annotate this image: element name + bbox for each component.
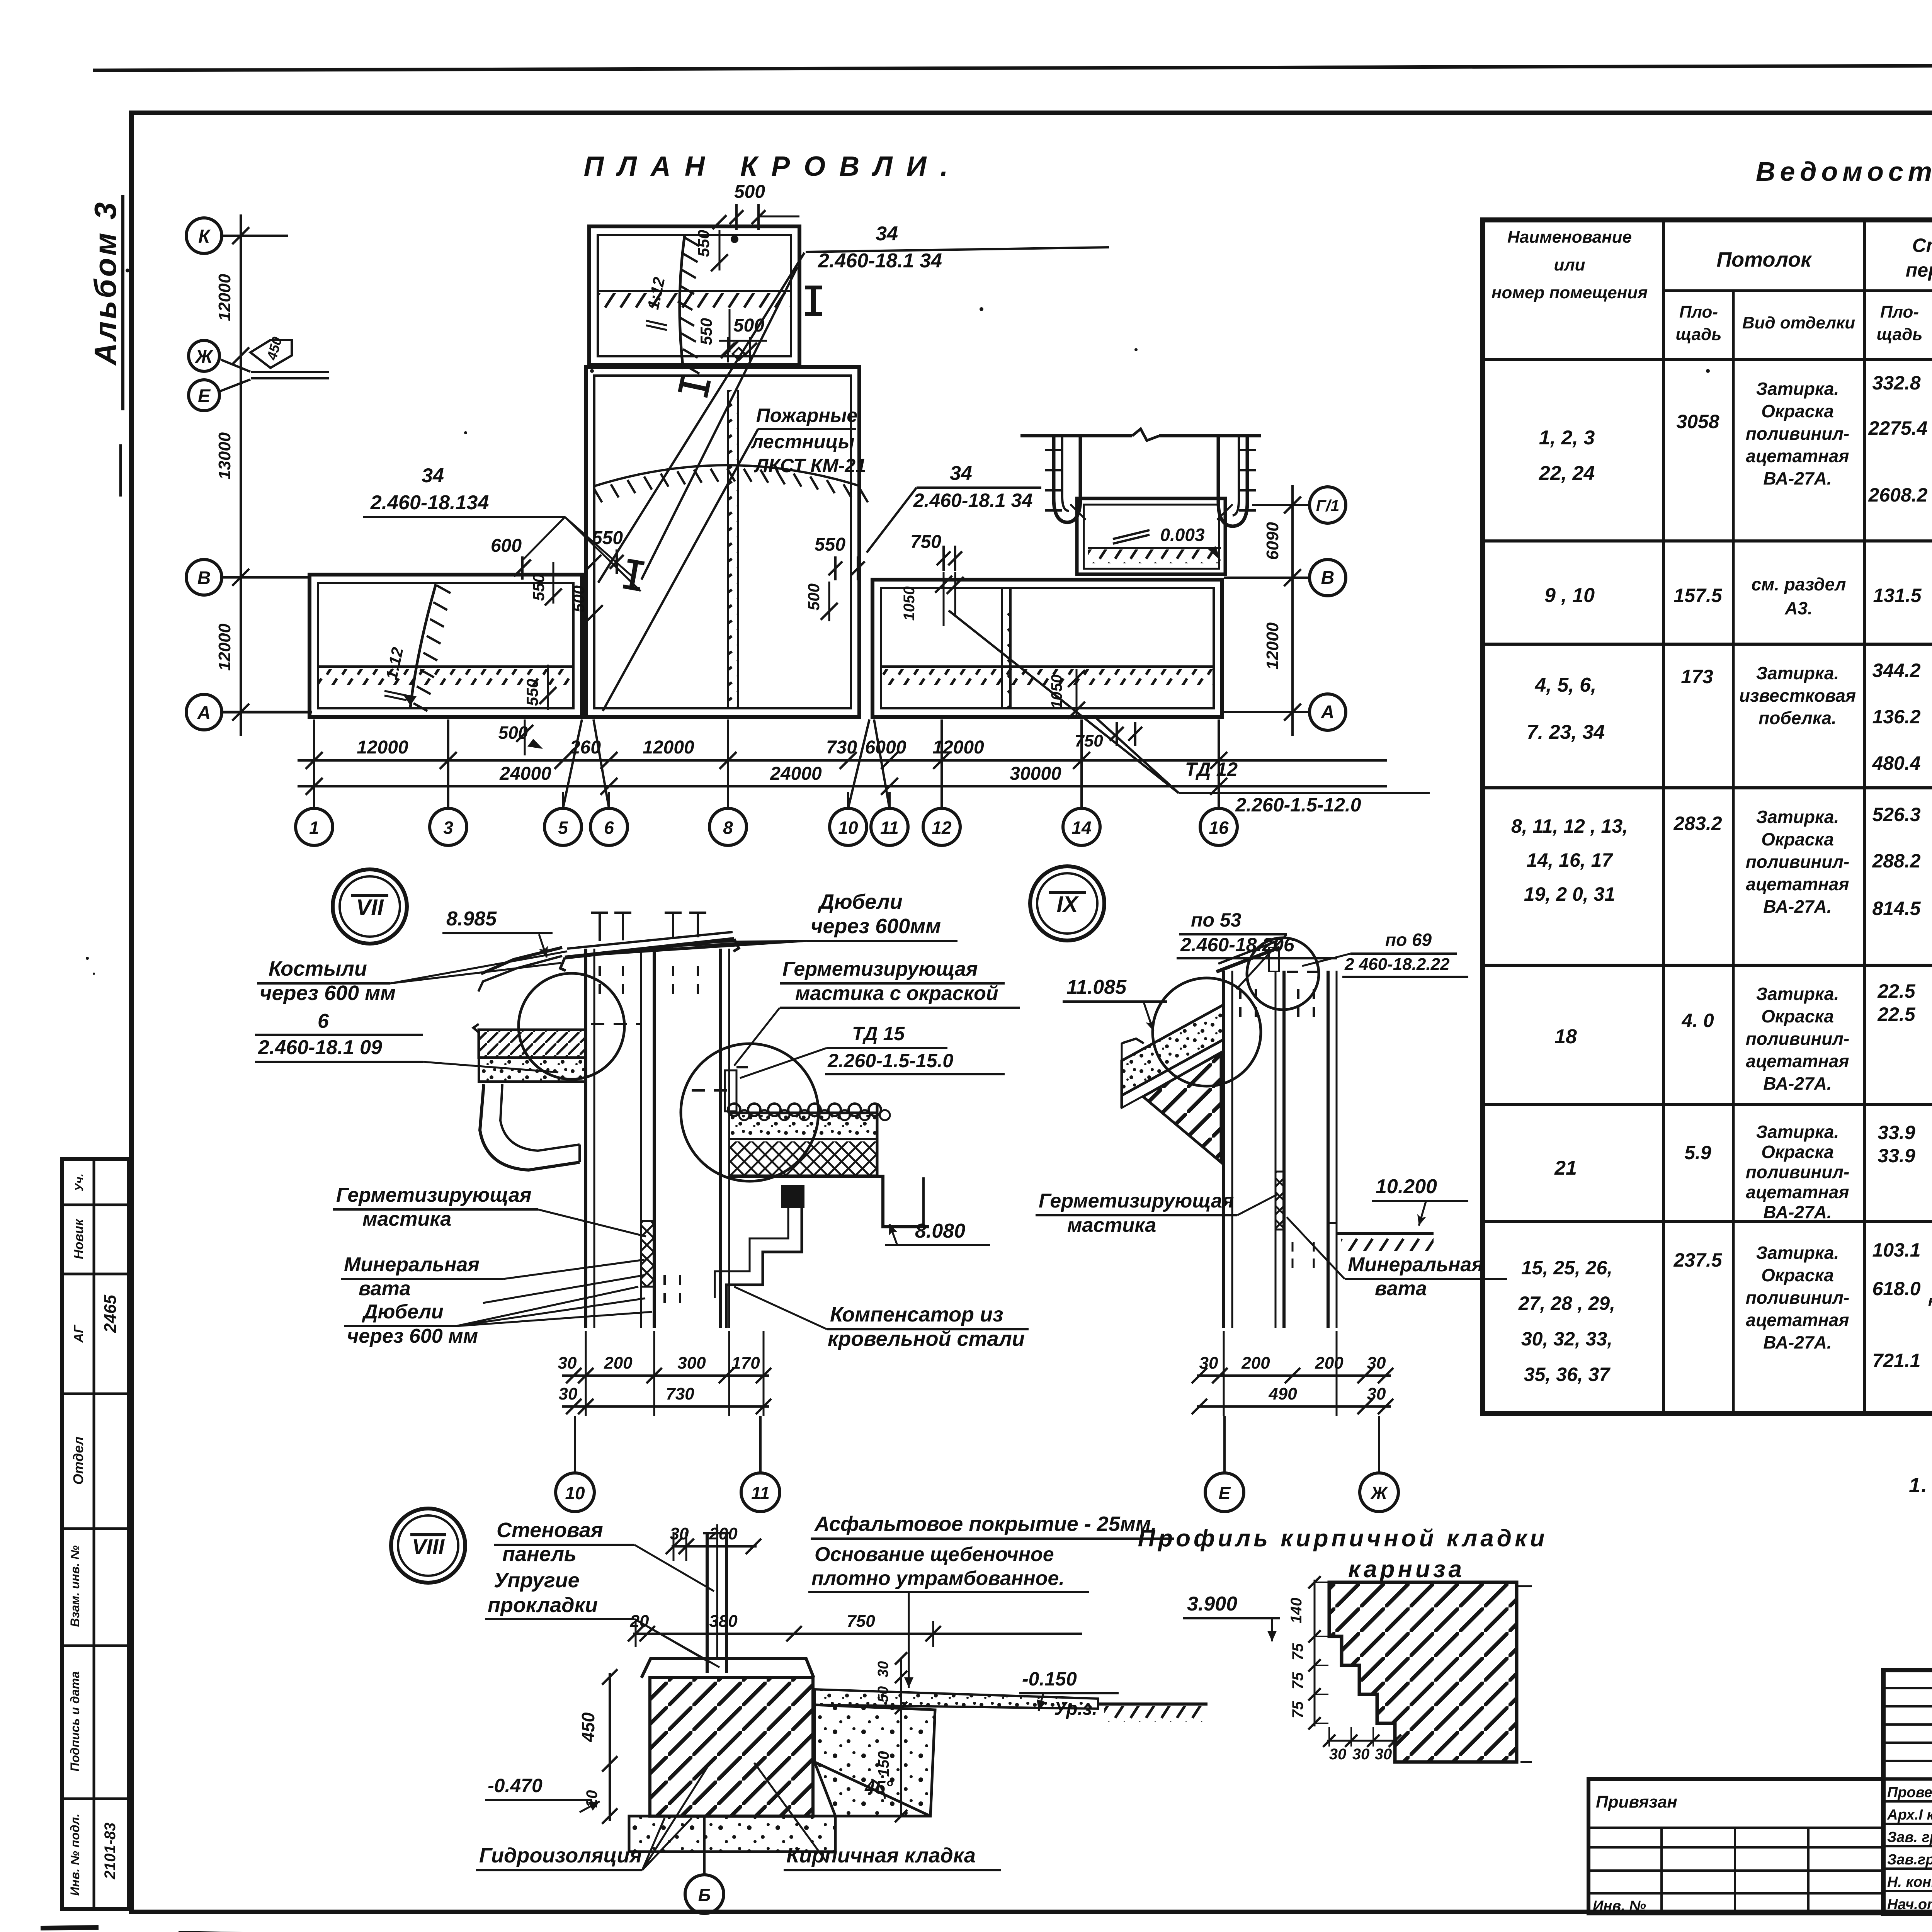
- svg-text:3058: 3058: [1676, 411, 1719, 432]
- svg-text:1050: 1050: [901, 587, 918, 621]
- svg-text:332.8: 332.8: [1872, 372, 1920, 394]
- svg-text:побелка.: побелка.: [1759, 708, 1837, 728]
- svg-text:550: 550: [697, 318, 715, 345]
- svg-text:Зав.груп: Зав.груп: [1887, 1852, 1932, 1868]
- svg-text:30: 30: [558, 1354, 577, 1372]
- svg-text:2101-83: 2101-83: [102, 1823, 119, 1880]
- svg-text:Отдел: Отдел: [70, 1437, 86, 1485]
- svg-text:Потолок: Потолок: [1716, 248, 1812, 271]
- svg-text:Е: Е: [198, 386, 211, 406]
- svg-text:30: 30: [1199, 1354, 1218, 1372]
- svg-text:Костыли: Костыли: [269, 957, 367, 980]
- svg-text:200: 200: [1241, 1354, 1270, 1372]
- svg-text:50: 50: [875, 1686, 891, 1702]
- svg-text:по 69: по 69: [1385, 930, 1432, 950]
- svg-text:721.1: 721.1: [1872, 1350, 1920, 1371]
- svg-text:вата: вата: [359, 1277, 411, 1300]
- svg-text:2465: 2465: [101, 1295, 120, 1333]
- svg-text:Упругие: Упругие: [494, 1569, 580, 1592]
- svg-text:12000: 12000: [357, 737, 408, 758]
- svg-text:8: 8: [723, 818, 733, 838]
- svg-text:22, 24: 22, 24: [1539, 462, 1595, 485]
- svg-text:Инв. № подл.: Инв. № подл.: [68, 1814, 82, 1896]
- svg-text:Окраска: Окраска: [1761, 1142, 1834, 1162]
- svg-text:33.9: 33.9: [1878, 1122, 1915, 1143]
- svg-text:ацетатная: ацетатная: [1746, 874, 1849, 894]
- svg-text:14, 16, 17: 14, 16, 17: [1527, 849, 1614, 871]
- svg-text:Кирпичная кладка: Кирпичная кладка: [786, 1844, 976, 1867]
- svg-text:13000: 13000: [215, 432, 234, 480]
- svg-text:ацетатная: ацетатная: [1746, 446, 1849, 466]
- svg-text:750: 750: [910, 532, 941, 552]
- svg-text:Основание щебеночное: Основание щебеночное: [815, 1543, 1054, 1566]
- svg-text:11: 11: [880, 818, 899, 838]
- svg-text:15, 25, 26,: 15, 25, 26,: [1521, 1257, 1612, 1279]
- svg-text:Герметизирующая: Герметизирующая: [782, 958, 978, 980]
- svg-text:поливинил-: поливинил-: [1746, 852, 1850, 872]
- svg-text:Ведомость отделки помещений: Ведомость отделки помещений: [1756, 156, 1932, 187]
- svg-text:А3.: А3.: [1784, 598, 1813, 618]
- svg-text:34: 34: [876, 223, 898, 245]
- svg-text:ЛКСТ КМ-21: ЛКСТ КМ-21: [754, 455, 866, 476]
- svg-text:618.0: 618.0: [1872, 1278, 1920, 1299]
- svg-text:известковая: известковая: [1739, 685, 1856, 706]
- svg-text:1: 1: [309, 818, 319, 838]
- svg-text:Привязан: Привязан: [1596, 1793, 1677, 1811]
- svg-text:через 600мм: через 600мм: [811, 915, 941, 938]
- svg-text:ацетатная: ацетатная: [1746, 1051, 1849, 1071]
- svg-text:500: 500: [498, 723, 528, 743]
- svg-text:Затирка.: Затирка.: [1756, 663, 1839, 683]
- svg-text:Нач.отд: Нач.отд: [1887, 1896, 1932, 1913]
- svg-text:4, 5, 6,: 4, 5, 6,: [1535, 674, 1597, 696]
- svg-text:ВА-27А.: ВА-27А.: [1763, 1073, 1832, 1094]
- svg-text:ВА-27А.: ВА-27А.: [1763, 468, 1832, 488]
- svg-text:22.5: 22.5: [1877, 1003, 1916, 1025]
- svg-text:30: 30: [1367, 1384, 1386, 1403]
- svg-text:550: 550: [529, 574, 548, 601]
- svg-text:8.985: 8.985: [446, 908, 497, 930]
- svg-text:Стеновая: Стеновая: [497, 1519, 603, 1542]
- svg-text:150: 150: [875, 1751, 892, 1777]
- svg-text:11.085: 11.085: [1066, 976, 1127, 998]
- svg-text:Герметизирующая: Герметизирующая: [1039, 1190, 1234, 1212]
- svg-text:30: 30: [1375, 1746, 1392, 1763]
- svg-text:кровельной стали: кровельной стали: [828, 1327, 1025, 1350]
- svg-text:ных поверхностей: ных поверхностей: [1928, 1293, 1932, 1310]
- svg-text:30: 30: [1352, 1746, 1370, 1763]
- svg-text:5: 5: [558, 818, 568, 838]
- svg-text:12000: 12000: [215, 623, 234, 671]
- svg-text:Затирка.: Затирка.: [1756, 1243, 1839, 1263]
- svg-text:750: 750: [1075, 731, 1103, 750]
- svg-text:75: 75: [1289, 1672, 1306, 1689]
- svg-text:Затирка.: Затирка.: [1756, 1122, 1839, 1142]
- svg-text:19, 2 0, 31: 19, 2 0, 31: [1524, 883, 1615, 905]
- svg-text:щадь: щадь: [1877, 325, 1923, 344]
- svg-text:ПЛАН КРОВЛИ.: ПЛАН КРОВЛИ.: [584, 151, 962, 182]
- svg-text:34: 34: [422, 464, 444, 487]
- svg-text:Подпись и дата: Подпись и дата: [68, 1671, 82, 1771]
- svg-text:18: 18: [1554, 1026, 1577, 1048]
- svg-text:10: 10: [565, 1483, 585, 1503]
- svg-text:750: 750: [847, 1612, 875, 1631]
- svg-text:9 , 10: 9 , 10: [1544, 584, 1595, 607]
- svg-text:12000: 12000: [932, 737, 984, 758]
- svg-text:А: А: [1321, 702, 1335, 723]
- svg-text:300: 300: [677, 1354, 706, 1372]
- svg-text:Уч.: Уч.: [73, 1173, 86, 1191]
- svg-text:ВА-27А.: ВА-27А.: [1763, 1202, 1832, 1222]
- svg-text:карниза: карниза: [1348, 1556, 1465, 1583]
- svg-text:через 600 мм: через 600 мм: [347, 1325, 478, 1347]
- svg-text:Профиль кирпичной кладки: Профиль кирпичной кладки: [1138, 1525, 1548, 1552]
- svg-text:30000: 30000: [1010, 764, 1061, 784]
- svg-text:27, 28 , 29,: 27, 28 , 29,: [1518, 1293, 1615, 1314]
- svg-text:8, 11, 12 , 13,: 8, 11, 12 , 13,: [1511, 815, 1628, 837]
- svg-text:12: 12: [932, 818, 952, 838]
- svg-text:номер помещения: номер помещения: [1492, 283, 1648, 302]
- svg-text:Н. контр.: Н. контр.: [1887, 1874, 1932, 1890]
- svg-text:24000: 24000: [770, 764, 822, 784]
- svg-text:33.9: 33.9: [1878, 1145, 1915, 1167]
- svg-text:75: 75: [1289, 1701, 1306, 1718]
- svg-text:Пло-: Пло-: [1880, 303, 1919, 321]
- svg-text:мастика: мастика: [362, 1208, 451, 1230]
- svg-text:173: 173: [1681, 666, 1713, 687]
- svg-text:В: В: [1321, 568, 1335, 588]
- svg-text:30: 30: [559, 1384, 578, 1403]
- svg-text:2.460-18.134: 2.460-18.134: [370, 492, 489, 514]
- svg-text:22.5: 22.5: [1877, 980, 1916, 1002]
- svg-text:прокладки: прокладки: [488, 1594, 598, 1617]
- svg-text:131.5: 131.5: [1873, 585, 1922, 606]
- svg-text:Ж: Ж: [194, 347, 214, 367]
- svg-text:30: 30: [1329, 1746, 1347, 1763]
- svg-text:30: 30: [875, 1661, 891, 1677]
- svg-text:ВА-27А.: ВА-27А.: [1763, 1332, 1832, 1352]
- svg-text:Дюбели: Дюбели: [362, 1301, 444, 1323]
- svg-text:288.2: 288.2: [1872, 850, 1920, 872]
- svg-text:550: 550: [523, 679, 541, 706]
- svg-text:-0.470: -0.470: [488, 1775, 543, 1796]
- svg-text:500: 500: [804, 583, 823, 611]
- svg-text:Асфальтовое покрытие - 25мм.: Асфальтовое покрытие - 25мм.: [814, 1512, 1157, 1536]
- svg-text:по 53: по 53: [1191, 909, 1242, 931]
- svg-text:237.5: 237.5: [1673, 1249, 1722, 1271]
- svg-text:0.003: 0.003: [1160, 525, 1205, 545]
- svg-text:Дюбели: Дюбели: [818, 890, 903, 913]
- svg-text:поливинил-: поливинил-: [1746, 1029, 1850, 1049]
- svg-text:2 460-18.2.22: 2 460-18.2.22: [1344, 955, 1450, 974]
- svg-text:3.900: 3.900: [1187, 1593, 1237, 1615]
- svg-text:140: 140: [1288, 1598, 1305, 1624]
- svg-text:6: 6: [604, 818, 614, 838]
- svg-text:500: 500: [734, 182, 765, 202]
- svg-text:550: 550: [694, 230, 713, 257]
- svg-text:730: 730: [826, 737, 857, 758]
- svg-text:плотно утрамбованное.: плотно утрамбованное.: [811, 1567, 1065, 1590]
- svg-text:лестницы: лестницы: [751, 431, 855, 452]
- svg-text:380: 380: [709, 1612, 738, 1631]
- svg-text:Ж: Ж: [1370, 1483, 1388, 1503]
- svg-text:Герметизирующая: Герметизирующая: [336, 1184, 531, 1206]
- svg-text:5.9: 5.9: [1684, 1142, 1711, 1163]
- svg-text:45°: 45°: [864, 1777, 893, 1798]
- svg-text:Компенсатор из: Компенсатор из: [830, 1303, 1003, 1326]
- svg-text:450: 450: [578, 1712, 598, 1742]
- svg-text:6090: 6090: [1263, 522, 1282, 560]
- svg-text:157.5: 157.5: [1673, 585, 1722, 606]
- svg-text:Затирка.: Затирка.: [1756, 807, 1839, 827]
- svg-text:30: 30: [1367, 1354, 1386, 1372]
- svg-text:2.260-1.5-15.0: 2.260-1.5-15.0: [827, 1050, 953, 1071]
- svg-text:К: К: [198, 226, 211, 247]
- svg-text:34: 34: [950, 462, 972, 485]
- svg-text:11: 11: [751, 1483, 770, 1503]
- svg-text:4. 0: 4. 0: [1681, 1010, 1714, 1031]
- svg-text:ацетатная: ацетатная: [1746, 1310, 1849, 1330]
- svg-text:поливинил-: поливинил-: [1746, 1162, 1850, 1182]
- svg-text:2275.4: 2275.4: [1868, 417, 1928, 439]
- svg-text:Зав. груп: Зав. груп: [1887, 1829, 1932, 1845]
- svg-text:Гидроизоляция: Гидроизоляция: [479, 1844, 642, 1867]
- svg-text:мастика с окраской: мастика с окраской: [795, 982, 998, 1005]
- svg-text:Затирка.: Затирка.: [1756, 379, 1839, 399]
- svg-text:Окраска: Окраска: [1761, 1006, 1834, 1026]
- svg-text:814.5: 814.5: [1872, 898, 1921, 919]
- svg-text:Е: Е: [1219, 1483, 1231, 1503]
- svg-text:или: или: [1554, 255, 1585, 274]
- svg-text:Пло-: Пло-: [1679, 303, 1718, 321]
- svg-text:136.2: 136.2: [1872, 706, 1920, 728]
- svg-text:Альбом 3: Альбом 3: [88, 200, 122, 366]
- svg-text:ацетатная: ацетатная: [1746, 1182, 1849, 1202]
- svg-text:Ур.з.: Ур.з.: [1054, 1699, 1097, 1719]
- svg-text:526.3: 526.3: [1872, 804, 1920, 825]
- svg-text:поливинил-: поливинил-: [1746, 423, 1850, 444]
- svg-text:7. 23, 34: 7. 23, 34: [1527, 721, 1605, 743]
- svg-text:1. Узлы VII, IX замаркированы: 1. Узлы VII, IX замаркированы на листе 4…: [1909, 1474, 1932, 1497]
- svg-text:-0.150: -0.150: [1022, 1668, 1077, 1690]
- svg-text:10.200: 10.200: [1376, 1175, 1437, 1198]
- svg-text:В: В: [197, 568, 211, 588]
- svg-text:вата: вата: [1375, 1277, 1427, 1300]
- svg-text:12000: 12000: [643, 737, 694, 758]
- svg-text:730: 730: [666, 1384, 694, 1403]
- svg-text:VIII: VIII: [412, 1534, 445, 1559]
- svg-text:14: 14: [1071, 818, 1091, 838]
- svg-text:поливинил-: поливинил-: [1746, 1287, 1850, 1308]
- svg-text:АГ: АГ: [71, 1324, 86, 1343]
- svg-text:Пожарные: Пожарные: [756, 405, 857, 426]
- svg-text:6000: 6000: [865, 737, 906, 758]
- svg-text:ВА-27А.: ВА-27А.: [1763, 896, 1832, 917]
- svg-text:20: 20: [630, 1612, 649, 1631]
- svg-text:Вид отделки: Вид отделки: [1742, 313, 1855, 332]
- svg-text:10: 10: [838, 818, 858, 838]
- svg-text:мастика: мастика: [1067, 1214, 1156, 1236]
- svg-text:8.080: 8.080: [915, 1220, 965, 1242]
- svg-text:600: 600: [491, 536, 522, 556]
- svg-text:12000: 12000: [1263, 622, 1282, 670]
- svg-text:1, 2, 3: 1, 2, 3: [1539, 427, 1595, 449]
- svg-text:через 600 мм: через 600 мм: [260, 981, 396, 1005]
- svg-text:2.460-18.1 34: 2.460-18.1 34: [818, 250, 942, 272]
- svg-text:16: 16: [1209, 818, 1229, 838]
- svg-text:Наименование: Наименование: [1507, 228, 1632, 247]
- svg-text:103.1: 103.1: [1872, 1239, 1920, 1261]
- svg-text:2.460-18.1 09: 2.460-18.1 09: [258, 1036, 382, 1059]
- svg-text:3: 3: [443, 818, 453, 838]
- svg-text:Минеральная: Минеральная: [344, 1253, 480, 1276]
- svg-text:480.4: 480.4: [1872, 752, 1920, 774]
- svg-text:35, 36, 37: 35, 36, 37: [1524, 1364, 1611, 1385]
- svg-text:ТД 15: ТД 15: [852, 1023, 905, 1044]
- svg-text:Провер.: Провер.: [1887, 1784, 1932, 1801]
- svg-text:Окраска: Окраска: [1761, 1265, 1834, 1285]
- svg-text:200: 200: [604, 1354, 633, 1372]
- svg-text:170: 170: [731, 1354, 760, 1372]
- svg-text:Затирка.: Затирка.: [1756, 984, 1839, 1004]
- svg-text:щадь: щадь: [1676, 325, 1722, 344]
- svg-text:Минеральная: Минеральная: [1348, 1253, 1483, 1276]
- svg-text:21: 21: [1554, 1157, 1577, 1179]
- svg-text:2608.2: 2608.2: [1868, 484, 1928, 506]
- svg-text:Стены или: Стены или: [1912, 235, 1932, 256]
- svg-text:А: А: [197, 703, 211, 723]
- svg-text:30, 32, 33,: 30, 32, 33,: [1521, 1328, 1612, 1350]
- svg-text:Инв. №: Инв. №: [1593, 1898, 1646, 1914]
- svg-text:Окраска: Окраска: [1761, 401, 1834, 421]
- svg-text:550: 550: [815, 534, 845, 555]
- svg-text:6: 6: [318, 1010, 329, 1032]
- svg-text:75: 75: [1289, 1643, 1306, 1660]
- svg-text:200: 200: [1315, 1354, 1344, 1372]
- svg-text:24000: 24000: [499, 764, 551, 784]
- svg-text:490: 490: [1268, 1384, 1297, 1403]
- svg-text:Б: Б: [698, 1885, 711, 1905]
- svg-text:Новик: Новик: [71, 1218, 86, 1259]
- svg-text:IX: IX: [1057, 892, 1079, 917]
- svg-text:283.2: 283.2: [1673, 813, 1722, 834]
- svg-text:см. раздел: см. раздел: [1752, 574, 1846, 594]
- svg-text:500: 500: [570, 585, 588, 612]
- svg-text:Взам. инв. №: Взам. инв. №: [68, 1545, 82, 1627]
- svg-text:Г/1: Г/1: [1316, 497, 1340, 515]
- svg-text:344.2: 344.2: [1872, 660, 1920, 681]
- svg-text:Окраска: Окраска: [1761, 829, 1834, 849]
- svg-text:VII: VII: [356, 895, 384, 920]
- svg-text:2.260-1.5-12.0: 2.260-1.5-12.0: [1235, 794, 1361, 816]
- svg-text:12000: 12000: [215, 274, 234, 321]
- svg-text:Арх.I кат.: Арх.I кат.: [1887, 1807, 1932, 1823]
- svg-text:перегородки: перегородки: [1906, 259, 1932, 281]
- svg-text:2.460-18.1 34: 2.460-18.1 34: [913, 490, 1033, 511]
